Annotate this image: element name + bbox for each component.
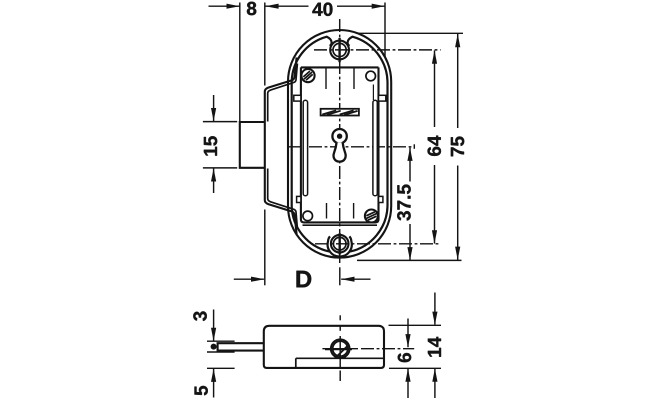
inner plate contour right + top boss curl <box>348 37 388 252</box>
lock vertical centerline <box>339 19 341 265</box>
extension line right of dim 40 <box>384 3 386 58</box>
dim 37.5 <box>409 148 411 182</box>
side body <box>264 326 384 368</box>
dim 64 <box>434 50 436 127</box>
side left extension lines <box>207 340 235 342</box>
side cylinder <box>331 339 350 358</box>
top plate extension line (75) <box>357 32 463 34</box>
case screw top-left (slotted) <box>301 69 314 82</box>
bottom boss collar <box>328 236 352 256</box>
case top ticks <box>325 67 327 89</box>
dim 5 <box>213 369 215 398</box>
lock horizontal centerline <box>288 146 414 148</box>
case outline <box>301 67 379 222</box>
small line under top-right screw <box>372 85 374 101</box>
case top edge <box>301 66 379 68</box>
side hub slash <box>335 345 348 358</box>
dim 15 label <box>204 136 217 155</box>
dim D label <box>297 271 312 288</box>
case screw bottom-left <box>303 211 313 221</box>
ear top-left <box>294 95 301 101</box>
side vertical centerline <box>339 315 341 320</box>
dim 3/5 dot <box>211 344 217 350</box>
dim 14 <box>434 293 436 325</box>
dim 40 line <box>265 5 308 7</box>
top screw <box>330 41 349 60</box>
ear bottom-right <box>379 196 383 202</box>
case screw top-right <box>366 71 376 81</box>
side right extension lines <box>389 324 442 326</box>
dim 75 <box>457 34 459 128</box>
dim D tick <box>339 267 341 285</box>
flange outer outline <box>265 58 297 235</box>
rail left <box>303 100 307 196</box>
side horizontal centerline <box>322 348 358 350</box>
bolt <box>240 122 265 168</box>
outer plate <box>288 30 391 258</box>
dim 40 label <box>312 3 332 17</box>
bottom plate extension line (75 / 37.5) <box>357 259 462 261</box>
dim 8 leader arrow <box>209 5 240 7</box>
dim 8 label <box>247 2 256 16</box>
extension line between dim 8 and 40 <box>264 3 266 86</box>
flange inner outline <box>268 64 298 122</box>
bottom screw centerline <box>315 243 441 245</box>
ear top-right <box>379 95 386 101</box>
dim D right arrow <box>341 278 370 280</box>
hatched rectangle <box>321 109 359 116</box>
dim 15 arrows <box>213 95 215 121</box>
top screw centerline <box>314 49 441 51</box>
ear bottom-left <box>297 196 301 202</box>
case screw bottom-right (slotted) <box>365 210 378 223</box>
dim D left arrow <box>234 278 264 280</box>
side step line <box>296 357 384 359</box>
dim 6 <box>407 319 409 348</box>
dim 15 extension lines <box>203 121 237 123</box>
side bolt <box>218 343 264 350</box>
rail right <box>373 100 377 196</box>
case bottom ticks <box>326 203 328 219</box>
side hub chord <box>325 348 352 350</box>
extension line left of dim 8 <box>239 3 241 122</box>
tick end of centerline <box>413 144 415 149</box>
case bottom second line <box>303 224 378 226</box>
dim 3 <box>213 310 215 342</box>
keyhole <box>332 129 346 143</box>
bottom screw <box>331 235 349 253</box>
inner plate contour left + top boss curl <box>292 37 332 252</box>
